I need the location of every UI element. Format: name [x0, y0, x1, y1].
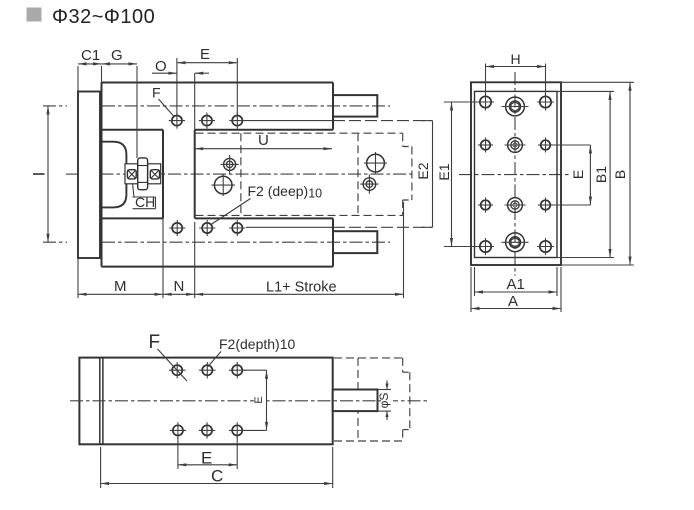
svg-text:C: C	[211, 467, 223, 486]
dimension H	[486, 51, 546, 97]
dimension B	[561, 82, 634, 265]
top arm hole 3	[229, 113, 245, 129]
dimension O	[152, 58, 209, 130]
bottom view extended plate hidden	[334, 358, 403, 441]
svg-text:O: O	[155, 58, 167, 75]
port small counterbored left	[221, 155, 239, 174]
svg-text:A: A	[508, 293, 518, 310]
svg-text:H: H	[511, 51, 521, 67]
label CH with leader and underline	[133, 184, 156, 210]
plate row4 right hole	[537, 238, 554, 255]
clamp right nut block	[148, 164, 161, 184]
dimension E1	[436, 102, 480, 247]
svg-text:U: U	[258, 132, 269, 149]
dimension E2 bracket	[415, 121, 433, 228]
port big circle right	[364, 152, 387, 174]
svg-text:B1: B1	[593, 166, 609, 183]
dimension C	[101, 447, 333, 488]
svg-text:Φ32~Φ100: Φ32~Φ100	[52, 6, 155, 28]
plate row2 left hole	[478, 138, 493, 153]
svg-text:E: E	[200, 46, 210, 63]
hidden line slot bottom	[196, 214, 403, 216]
bore D-shape	[102, 142, 127, 208]
svg-text:φS: φS	[377, 393, 391, 409]
svg-text:F: F	[152, 85, 161, 101]
svg-text:B: B	[612, 170, 628, 179]
hidden vertical at piston	[240, 133, 242, 215]
bottom arm hole 3	[229, 220, 245, 236]
svg-text:E: E	[570, 170, 586, 179]
slide table left edge	[194, 130, 196, 219]
plate row3 center hole	[505, 198, 526, 213]
dimension B1	[557, 91, 614, 257]
bottom view body outline	[79, 358, 332, 445]
inner wall	[162, 130, 164, 219]
plate centerline horizontal	[459, 174, 569, 176]
svg-text:L1+ Stroke: L1+ Stroke	[266, 280, 337, 296]
hidden plate extended right edge	[402, 133, 404, 215]
plate row3 left hole	[478, 198, 493, 213]
plate row1 center counterbore	[502, 97, 529, 116]
bottom view hole bottom 3	[229, 422, 245, 438]
hidden line slide upper edge	[245, 120, 433, 122]
plate row1 left hole	[477, 94, 494, 111]
hidden vertical mid	[357, 133, 359, 215]
dimension I	[30, 106, 50, 242]
bottom view cap joint lines	[100, 358, 103, 445]
bottom view centerline	[70, 400, 430, 402]
bottom view hole bottom 1	[170, 422, 186, 438]
bottom arm hole 1	[169, 220, 185, 236]
svg-text:F2 (deep)10: F2 (deep)10	[248, 183, 323, 201]
clamp left nut block	[125, 164, 138, 184]
bottom view piston rod	[333, 390, 378, 412]
centerline main	[66, 173, 415, 175]
label F2 (deep)10 with leader	[211, 183, 322, 225]
svg-text:F2(depth)10: F2(depth)10	[219, 336, 295, 352]
port small counterbored right	[360, 175, 378, 194]
plate inner rect	[475, 91, 558, 257]
top arm hole 1 (F)	[169, 113, 185, 129]
dimension U	[195, 132, 332, 150]
hidden clamp tab extended	[403, 147, 412, 201]
clamp center block	[138, 158, 148, 190]
dimension E bottom	[178, 437, 237, 469]
svg-text:E: E	[253, 396, 265, 403]
plate row2 right hole	[538, 138, 553, 153]
plate row4 left hole	[477, 238, 494, 255]
label F2(depth)10 bottom view with leader	[208, 336, 295, 367]
svg-text:C1: C1	[81, 47, 100, 64]
bottom view hole top 3	[229, 362, 245, 378]
dimension N	[163, 222, 195, 298]
label F bottom view with leader	[149, 332, 188, 381]
dimension A	[471, 267, 561, 312]
plate centerline vertical	[514, 72, 516, 276]
centerline upper rod	[43, 105, 390, 107]
header grey square	[27, 8, 42, 22]
port big circle left	[212, 175, 236, 197]
svg-text:G: G	[111, 47, 123, 64]
dimension M	[78, 218, 163, 298]
svg-text:N: N	[174, 278, 185, 295]
dimension E top	[177, 46, 237, 114]
svg-text:E1: E1	[436, 163, 452, 180]
plate outer rect	[471, 82, 561, 265]
centerline lower rod	[43, 241, 390, 243]
bottom view hole bottom 2	[199, 422, 215, 438]
dimension A1	[475, 267, 558, 296]
upper guide rod	[333, 95, 377, 117]
lower guide rod	[333, 231, 377, 253]
bottom arm hole 2	[199, 220, 215, 236]
dimension G	[102, 47, 138, 158]
svg-text:I: I	[30, 172, 49, 177]
label F top view with leader	[152, 85, 174, 117]
dimension L1+Stroke	[195, 202, 404, 298]
dimension phi S	[377, 381, 393, 421]
bottom view hole top 1	[169, 362, 185, 378]
svg-text:CH: CH	[135, 194, 155, 210]
hidden line slot top	[196, 132, 403, 134]
bottom view extended clamp tab hidden	[403, 372, 410, 429]
plate row1 right hole	[537, 94, 554, 111]
dimension E bracket bottom view	[244, 370, 269, 430]
svg-text:A1: A1	[507, 276, 525, 293]
body outline	[102, 83, 334, 267]
plate row4 center counterbore	[502, 233, 529, 252]
flange plate	[78, 92, 100, 259]
svg-text:E: E	[201, 449, 212, 468]
header title Φ32~Φ100	[52, 6, 155, 28]
plate row3 right hole	[538, 198, 553, 213]
bottom view hole top 2	[199, 362, 215, 378]
dimension C1	[78, 47, 102, 92]
plate row2 center hole	[505, 138, 526, 153]
svg-text:M: M	[114, 278, 127, 295]
top arm hole 2	[199, 113, 215, 129]
dimension E right view	[551, 145, 592, 205]
hidden line slide lower edge	[246, 226, 433, 228]
svg-text:E2: E2	[415, 162, 431, 179]
